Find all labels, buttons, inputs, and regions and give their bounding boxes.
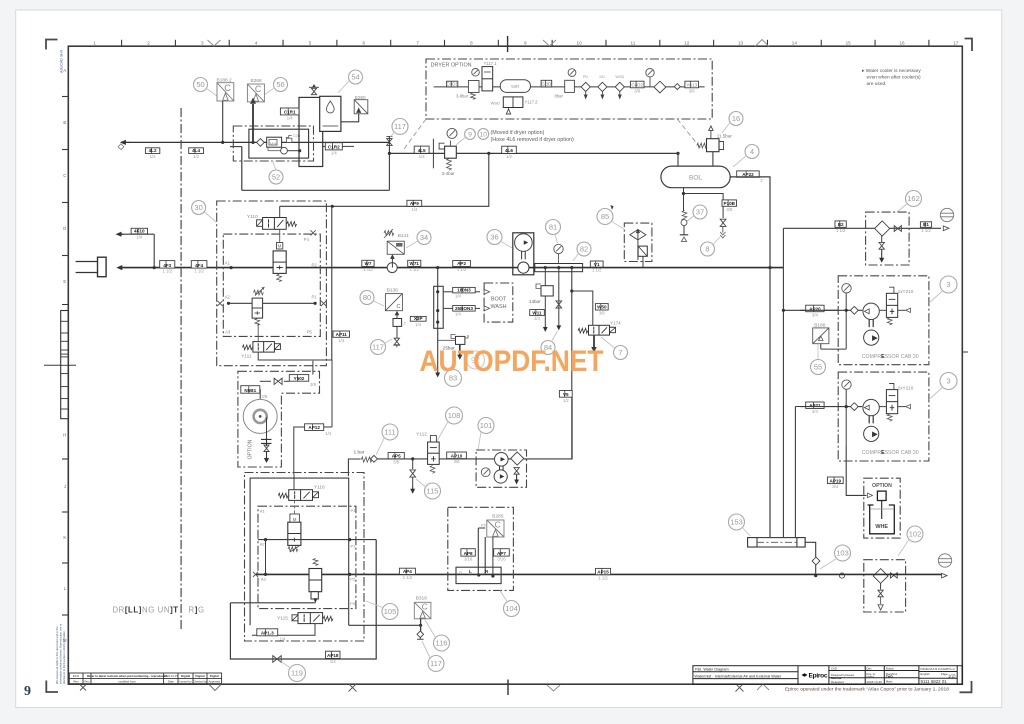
wire riser x=783.4 bbox=[782, 228, 784, 539]
svg-text:3/8: 3/8 bbox=[689, 88, 695, 93]
svg-text:3/8: 3/8 bbox=[634, 88, 640, 93]
svg-text:4L5: 4L5 bbox=[418, 148, 426, 153]
svg-text:AP22: AP22 bbox=[742, 172, 754, 177]
open arrow right end bottom bus bbox=[942, 573, 947, 578]
svg-text:P1: P1 bbox=[312, 295, 318, 300]
wire gauge drop B bbox=[845, 389, 847, 445]
svg-text:W11: W11 bbox=[532, 310, 542, 315]
valve square below B136 bbox=[393, 319, 407, 327]
svg-text:are used.: are used. bbox=[867, 81, 887, 87]
inner box 52 bbox=[249, 129, 309, 158]
junction 104 b bbox=[491, 574, 494, 577]
enclosure box 162 dash-dot bbox=[866, 212, 910, 265]
leader balloon 30 bbox=[205, 212, 217, 222]
svg-text:1/2: 1/2 bbox=[506, 154, 512, 159]
gauge in 101 bbox=[481, 468, 490, 477]
tag AP8 3/16 bbox=[461, 549, 475, 562]
svg-text:4F4: 4F4 bbox=[195, 263, 203, 268]
tag AP1.3 1/4 bbox=[257, 629, 286, 642]
svg-text:8: 8 bbox=[470, 40, 473, 45]
bowtie on bottom line 119 bbox=[273, 656, 281, 663]
leader balloon 7 bbox=[601, 337, 615, 348]
arrow up above relief bbox=[709, 126, 713, 139]
dryer regulator valve bbox=[468, 81, 479, 100]
svg-text:10: 10 bbox=[480, 131, 488, 138]
wire column bottom to C1R2 bbox=[323, 145, 326, 147]
wire B318 stub up bbox=[420, 619, 422, 626]
svg-text:3: 3 bbox=[201, 40, 204, 45]
svg-text:▸ Water cooler is necessary: ▸ Water cooler is necessary bbox=[862, 68, 921, 74]
svg-text:P&I. Water Diagram: P&I. Water Diagram bbox=[695, 668, 729, 672]
junction B318 bbox=[419, 624, 422, 627]
svg-text:8: 8 bbox=[705, 245, 709, 254]
svg-text:N5B1: N5B1 bbox=[244, 388, 256, 393]
svg-text:2018-10-30: 2018-10-30 bbox=[867, 680, 883, 684]
balloon 30 bbox=[192, 201, 206, 215]
svg-text:P2: P2 bbox=[350, 577, 356, 582]
left tick above ladder bbox=[62, 304, 68, 306]
svg-text:AutoCAD SHX: AutoCAD SHX bbox=[60, 49, 64, 73]
bowtie below pulley bbox=[264, 445, 269, 451]
junction bus/pipe1 bbox=[768, 266, 771, 269]
wire to Y174 bbox=[572, 291, 593, 325]
valve V117 bowtie on riser x=389.4 bbox=[387, 139, 392, 146]
svg-text:36: 36 bbox=[490, 233, 498, 242]
X mark inner box right bbox=[321, 301, 326, 306]
svg-text:AP2: AP2 bbox=[457, 261, 466, 266]
leader balloon 153 bbox=[743, 528, 751, 537]
svg-text:Digital: Digital bbox=[210, 674, 219, 678]
svg-text:GBD: GBD bbox=[541, 82, 552, 87]
filter B368 bbox=[247, 84, 264, 102]
diamond drain B318 bbox=[417, 631, 424, 638]
svg-text:4: 4 bbox=[255, 40, 258, 45]
junction line2 right bbox=[314, 302, 317, 305]
wire B188 elbow to cab A bbox=[829, 348, 846, 350]
valve Y115 bbox=[292, 613, 333, 624]
balloon 10 bbox=[478, 129, 489, 140]
tag AP9 1/4 bbox=[407, 200, 422, 212]
svg-text:Y613: Y613 bbox=[686, 83, 697, 88]
top ruler numbers 1-17 bbox=[93, 40, 958, 45]
tag B1 1 1/2 bbox=[920, 222, 931, 233]
mid valve bottom stem bbox=[311, 592, 318, 599]
balloon 54 bbox=[349, 70, 363, 84]
wire drain right branch bbox=[684, 194, 724, 200]
tag AP11 1/4 bbox=[333, 331, 350, 343]
svg-text:AUTOPDF.NET: AUTOPDF.NET bbox=[420, 345, 604, 378]
vent symbol near 162 bbox=[940, 208, 953, 221]
svg-text:C1R2: C1R2 bbox=[328, 145, 340, 150]
svg-text:WHE: WHE bbox=[875, 524, 888, 530]
balloon 7 bbox=[614, 346, 628, 360]
svg-text:50R: 50R bbox=[511, 84, 519, 89]
gauge 3 stem bbox=[649, 77, 651, 87]
text BOOT WASH bbox=[491, 297, 507, 311]
junction bottom bus x=815.7 bbox=[814, 574, 817, 577]
svg-text:3/8: 3/8 bbox=[454, 459, 460, 464]
svg-text:DRYER OPTION: DRYER OPTION bbox=[431, 63, 472, 69]
left ruler letters and ticks bbox=[62, 68, 68, 643]
junction drilling A2 bbox=[264, 538, 267, 541]
wire riser AP9 corner bbox=[280, 153, 489, 206]
valve in WHE box bbox=[877, 491, 886, 500]
tag W11 3/4 bbox=[530, 310, 545, 322]
balloon 3 A bbox=[940, 276, 957, 293]
pilot M drilling bbox=[290, 514, 300, 523]
drilling solid box bbox=[250, 478, 349, 625]
valve Y112 bbox=[428, 436, 440, 474]
receiver 50R oval bbox=[500, 80, 530, 93]
svg-text:WASH: WASH bbox=[491, 304, 507, 310]
leader balloon 111 bbox=[376, 438, 385, 456]
svg-text:W71: W71 bbox=[410, 261, 420, 266]
svg-text:AP18: AP18 bbox=[327, 653, 339, 658]
tag X3P 1/4 bbox=[410, 316, 426, 327]
svg-text:Mass: Mass bbox=[886, 680, 893, 684]
wire risers to Y502 area bbox=[312, 361, 314, 375]
arrow down drain 8 bbox=[720, 227, 725, 239]
svg-text:1 1/2: 1 1/2 bbox=[194, 269, 204, 274]
tag 4L2 1/2 below top line bbox=[145, 148, 159, 159]
balloon 105 bbox=[382, 604, 398, 620]
balloon 117 bottom bbox=[428, 656, 444, 672]
svg-text:P4: P4 bbox=[304, 237, 310, 242]
wire 162 drain bbox=[881, 236, 883, 242]
junction bus x=231.1 bbox=[230, 266, 233, 269]
wire tank to AP22 and down pipe1 bbox=[730, 177, 770, 539]
motor circle 101 bottom bbox=[494, 470, 507, 483]
junction cab A bbox=[845, 309, 848, 312]
wire B136 drain down bbox=[396, 326, 398, 338]
leader balloon 56 bbox=[264, 89, 274, 96]
svg-text:O: O bbox=[459, 570, 462, 575]
svg-text:X3P: X3P bbox=[414, 316, 423, 321]
small arrow above 85 bbox=[610, 205, 613, 210]
arrow right end 162 line bbox=[943, 226, 949, 231]
svg-text:85: 85 bbox=[601, 212, 609, 221]
open arrow into WHE bbox=[868, 493, 873, 498]
svg-text:3/16: 3/16 bbox=[464, 557, 473, 562]
svg-text:9: 9 bbox=[524, 40, 527, 45]
svg-text:14bar: 14bar bbox=[529, 299, 541, 304]
wire riser right of box30 bbox=[331, 206, 333, 360]
enclosure compressor cab box A bbox=[838, 276, 929, 365]
arrow up into B141 bbox=[390, 254, 395, 267]
svg-text:AP11: AP11 bbox=[336, 332, 348, 337]
open arrow into bootwash 2 bbox=[484, 306, 490, 311]
valve Y117.1 bbox=[482, 67, 493, 91]
bowtie on branch 558.8 bbox=[556, 301, 562, 308]
svg-text:P10B: P10B bbox=[724, 201, 736, 206]
wire boot stub2 bbox=[443, 307, 453, 309]
drain diamond DD bbox=[598, 82, 607, 91]
tag Y502 bbox=[289, 375, 316, 387]
svg-text:3/4: 3/4 bbox=[832, 484, 838, 489]
enclosure OPTION WHE dash-dot bbox=[864, 478, 900, 538]
svg-text:6: 6 bbox=[363, 40, 366, 45]
shaft cab B bbox=[869, 416, 873, 424]
svg-text:7: 7 bbox=[416, 40, 419, 45]
balloon 16 bbox=[729, 112, 743, 126]
svg-text:AP12: AP12 bbox=[308, 425, 320, 430]
bowtie below 162 bbox=[879, 242, 884, 249]
tag V5 1/2 on branch bbox=[559, 391, 572, 403]
svg-text:4F3: 4F3 bbox=[163, 263, 171, 268]
svg-text:1 1/2: 1 1/2 bbox=[403, 575, 413, 580]
svg-text:P5: P5 bbox=[307, 329, 313, 334]
svg-text:WSD: WSD bbox=[615, 75, 624, 79]
svg-text:Des: Des bbox=[867, 667, 873, 671]
balloon 34 bbox=[417, 231, 431, 245]
bowtie right 162 bbox=[894, 226, 901, 232]
junction drilling P2 bbox=[348, 573, 351, 576]
motor circle cab B bbox=[863, 399, 879, 415]
svg-text:Y117.2: Y117.2 bbox=[525, 100, 539, 105]
gauge on bus x=392 bbox=[387, 263, 397, 273]
wire inside 52 drop bbox=[267, 147, 269, 151]
tag 180N3 1/4 bbox=[453, 287, 476, 298]
main valve drilling bbox=[288, 522, 301, 545]
svg-text:AP7: AP7 bbox=[497, 551, 506, 556]
regulator W11 bbox=[536, 284, 553, 296]
junction 1bar x=412.7 bbox=[411, 457, 414, 460]
svg-text:C: C bbox=[255, 84, 262, 94]
motor circle cab A bbox=[863, 303, 879, 319]
ground symbol below 37 bbox=[680, 235, 688, 242]
balloon 50 bbox=[194, 78, 208, 92]
tag AP10 3/8 bbox=[447, 452, 467, 464]
balloon 104 bbox=[504, 601, 520, 617]
bottom X mark 3 bbox=[736, 684, 744, 692]
wire drilling line A2-P1 bbox=[258, 539, 376, 541]
tag 4L6 1/2 on dryer line bbox=[502, 146, 517, 159]
wire separator to B280 bbox=[341, 114, 359, 122]
enclosure box 30 outer dash-dot bbox=[217, 201, 327, 366]
diamond arrow in box 85 bbox=[630, 229, 646, 261]
svg-text:117: 117 bbox=[394, 122, 406, 131]
leader balloon 85 bbox=[612, 222, 625, 230]
wire Y116 to M dashed bbox=[294, 500, 296, 514]
svg-text:3/8: 3/8 bbox=[310, 382, 316, 387]
wire branch x=558.8 bbox=[558, 268, 560, 325]
corner bracket bottom-left bbox=[46, 681, 58, 693]
junction boot 2 bbox=[436, 309, 439, 312]
svg-text:J: J bbox=[64, 484, 66, 489]
open arrow down 102 bbox=[878, 597, 883, 610]
svg-text:50: 50 bbox=[196, 80, 204, 89]
filter diamond 102 bbox=[873, 569, 888, 584]
wire C1R2 right segment bbox=[342, 145, 354, 147]
wire valve to motor A bbox=[879, 309, 886, 311]
svg-text:AP1.3: AP1.3 bbox=[261, 631, 274, 636]
leader balloon 80 bbox=[374, 301, 385, 306]
title block bbox=[693, 666, 962, 685]
tag GBD bbox=[541, 80, 552, 87]
svg-text:TWD: TWD bbox=[886, 675, 894, 679]
junction bus branch x=154.2 bbox=[153, 266, 156, 269]
svg-text:W50: W50 bbox=[597, 305, 607, 310]
left fold mark bbox=[44, 364, 76, 366]
shaft 101 bbox=[500, 466, 504, 471]
top fold V mark 2 bbox=[543, 40, 556, 46]
leader balloon 117 top bbox=[391, 132, 395, 138]
svg-text:11: 11 bbox=[631, 40, 636, 45]
svg-text:9: 9 bbox=[24, 684, 31, 699]
svg-text:1/4: 1/4 bbox=[455, 312, 461, 317]
arrow below DD bbox=[600, 92, 604, 100]
manifold rect boot bbox=[434, 286, 444, 328]
vertical copyright text bottom-left bbox=[55, 624, 66, 684]
wire Y110 down to M bbox=[279, 229, 281, 242]
svg-text:105: 105 bbox=[384, 607, 397, 616]
manifold 104 bbox=[456, 567, 501, 583]
svg-text:1/4: 1/4 bbox=[331, 151, 337, 156]
junction bus x=545.3 bbox=[544, 266, 547, 269]
manifold rect on bus bbox=[535, 264, 583, 272]
balloon 4 bbox=[745, 145, 759, 159]
diamond cab inlet B bbox=[850, 403, 858, 411]
spring above mid valve bbox=[313, 558, 318, 565]
arrow up into B136 bbox=[395, 311, 400, 326]
svg-text:modified from: modified from bbox=[118, 680, 136, 684]
drain triangle below WSD bbox=[506, 108, 510, 115]
wire drain 102 bbox=[880, 583, 882, 589]
junction dryer line / riser bbox=[388, 152, 391, 155]
open arrow right cab B bbox=[906, 404, 911, 408]
svg-text:1 1/2: 1 1/2 bbox=[921, 228, 931, 233]
enclosure drilling outer dash-dot bbox=[245, 473, 365, 642]
svg-text:Epiroc operated under the trad: Epiroc operated under the trademark “Atl… bbox=[785, 687, 949, 693]
wire Y115 drop bbox=[252, 624, 315, 636]
leader balloon 115 bbox=[416, 479, 425, 487]
svg-text:WSD: WSD bbox=[491, 101, 500, 106]
svg-text:14: 14 bbox=[792, 40, 798, 45]
wire AP12 path bbox=[324, 426, 332, 428]
svg-text:Refer to latest revision when: Refer to latest revision when part numbe… bbox=[87, 674, 167, 678]
box 36 shaft bbox=[522, 251, 526, 259]
wire top line y=142.4 bbox=[125, 141, 390, 143]
corner bracket top-left bbox=[46, 40, 58, 50]
enclosure drilling inner dash-dot bbox=[258, 506, 356, 608]
svg-text:103: 103 bbox=[836, 549, 849, 558]
svg-text:(Hose 4L6 removed if dryer opt: (Hose 4L6 removed if dryer option) bbox=[491, 137, 574, 143]
svg-text:1/4: 1/4 bbox=[279, 636, 285, 641]
svg-text:3-8bar: 3-8bar bbox=[456, 94, 469, 99]
small diamond dryer bbox=[674, 84, 680, 90]
svg-text:2xY210: 2xY210 bbox=[898, 385, 914, 390]
arrow down Y174 bbox=[591, 335, 597, 352]
tag 4F3 1 1/2 on bus bbox=[160, 261, 175, 274]
svg-text:ECO: ECO bbox=[73, 674, 80, 678]
balloon 56 bbox=[274, 78, 288, 92]
svg-text:1/2: 1/2 bbox=[193, 154, 199, 159]
svg-text:16: 16 bbox=[899, 40, 905, 45]
wire return y=190.3 bbox=[242, 189, 390, 191]
tag AP19 3/4 bbox=[827, 477, 843, 489]
top fold bar mark bbox=[507, 36, 509, 52]
wire bowtie to arrow 115 bbox=[412, 478, 414, 488]
arrow below PD bbox=[584, 92, 588, 100]
wire drilling left riser bbox=[265, 540, 267, 575]
duct 104 bbox=[478, 528, 485, 574]
gauge above regulator bbox=[447, 128, 457, 138]
open arrow into bootwash 1 bbox=[484, 289, 490, 294]
wire branch x=571.8 down bbox=[571, 268, 573, 459]
right frame tick bbox=[962, 351, 968, 353]
svg-text:1 1/2: 1 1/2 bbox=[363, 267, 373, 272]
wire cab feed line B bbox=[800, 406, 862, 408]
wire B285 drop bbox=[492, 537, 494, 576]
svg-text:162: 162 bbox=[907, 194, 920, 203]
svg-text:180N3: 180N3 bbox=[457, 288, 471, 293]
valve Y210 A bbox=[886, 287, 897, 325]
balloon 84 bbox=[541, 341, 555, 355]
svg-text:(Moved if dryer option): (Moved if dryer option) bbox=[491, 130, 545, 136]
junction line2 left bbox=[227, 302, 230, 305]
circle valve on bottom bus bbox=[839, 573, 844, 578]
leader balloon 117 mid bbox=[385, 339, 393, 344]
wire riser x=241.8 (147-190) bbox=[241, 147, 243, 191]
wire branch riser x=154.2 bbox=[153, 234, 155, 267]
svg-text:4: 4 bbox=[750, 147, 754, 156]
filter B318 bbox=[414, 602, 431, 619]
svg-text:A1: A1 bbox=[260, 509, 266, 514]
svg-text:55: 55 bbox=[814, 363, 822, 372]
enclosure box 102 dash-dot bbox=[864, 560, 906, 612]
leader balloon 162 bbox=[897, 204, 908, 213]
wire branch y=234.2 to left arrow bbox=[121, 233, 154, 235]
junction boot 1 bbox=[436, 290, 439, 293]
svg-text:25BON3: 25BON3 bbox=[455, 306, 473, 311]
wire manifold outlet bbox=[805, 542, 816, 557]
arrow up into B368 bbox=[250, 98, 256, 143]
junction dryer line x=488.8 bbox=[487, 152, 490, 155]
svg-text:15: 15 bbox=[846, 40, 852, 45]
svg-text:P2: P2 bbox=[312, 262, 318, 267]
svg-text:COMPRESSOR CAB 30: COMPRESSOR CAB 30 bbox=[862, 354, 919, 360]
balloon 108 bbox=[446, 407, 463, 424]
svg-text:7: 7 bbox=[618, 348, 622, 357]
svg-text:BOL: BOL bbox=[689, 175, 702, 182]
tag AP12 1/4 bbox=[305, 424, 332, 436]
junction bus x=437.7 bbox=[436, 266, 439, 269]
svg-text:101: 101 bbox=[480, 421, 493, 430]
wire Y110 riser to AP9 line bbox=[279, 206, 281, 217]
arrow below mid valve bbox=[313, 598, 317, 603]
X mark inner box top bbox=[311, 230, 316, 235]
shaft cab A bbox=[869, 320, 873, 328]
svg-text:1": 1" bbox=[760, 178, 764, 183]
svg-text:Y116: Y116 bbox=[314, 485, 325, 491]
spring below relief 30 bbox=[255, 318, 260, 325]
wire B318 drain down bbox=[420, 625, 422, 631]
wire circle to column bbox=[287, 150, 299, 152]
arrow up into B280 bbox=[356, 108, 361, 113]
diamond cab inlet A bbox=[850, 306, 858, 314]
wire AP21 line bbox=[795, 406, 838, 408]
bowtie drain 8 bbox=[720, 219, 726, 226]
enclosure compressor cab box B bbox=[838, 372, 929, 461]
svg-text:P4: P4 bbox=[350, 601, 356, 606]
tag AP15 1 1/2 bbox=[596, 568, 611, 580]
tag C1R1 1/4 bbox=[280, 108, 299, 121]
arrow down 162 bbox=[879, 250, 884, 263]
svg-text:K: K bbox=[63, 535, 66, 540]
svg-text:3/8: 3/8 bbox=[393, 459, 399, 464]
spring arrow above relief 30 bbox=[254, 287, 265, 296]
spring below regulator bbox=[447, 159, 452, 171]
